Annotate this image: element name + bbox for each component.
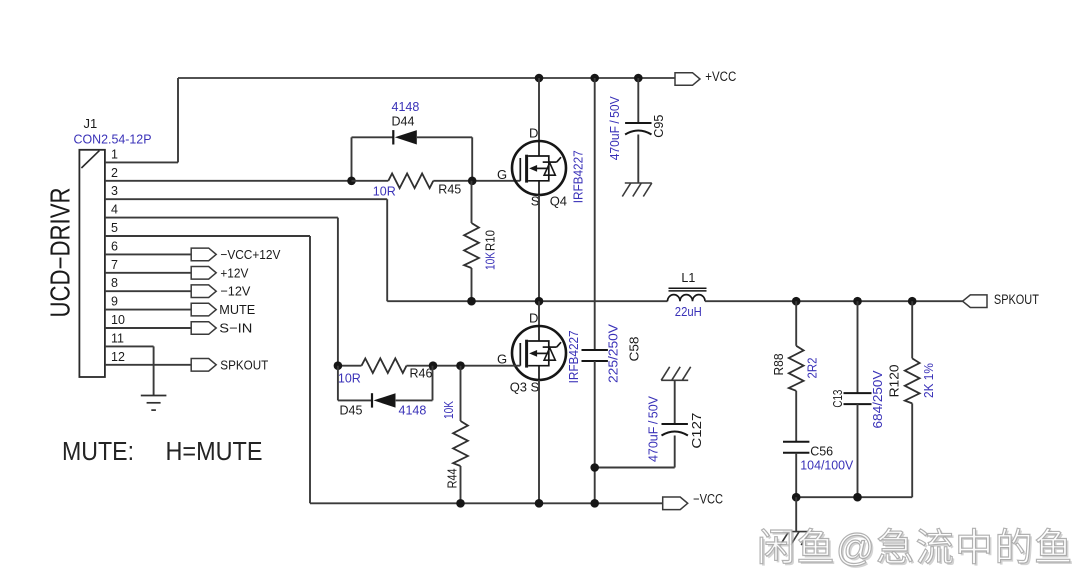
- junction pin2/D44/R45: [347, 177, 356, 186]
- svg-text:C56: C56: [810, 445, 833, 459]
- svg-text:G: G: [497, 167, 507, 182]
- junction R10 / switch rail: [467, 297, 476, 306]
- junction R120 / rail: [908, 297, 917, 306]
- wire R45 to Q4 gate: [433, 180, 520, 182]
- wire pin4: [105, 217, 338, 219]
- junction R45/R10/D44: [468, 177, 477, 186]
- ground (earth) C95: [622, 183, 652, 197]
- svg-text:IRFB4227: IRFB4227: [571, 150, 586, 203]
- svg-text:SPKOUT: SPKOUT: [220, 357, 268, 372]
- flag -VCC: [663, 497, 688, 510]
- connector J1 CON2.54-12P: [79, 150, 105, 377]
- wire pin4 vertical: [337, 218, 339, 366]
- svg-text:10K: 10K: [483, 251, 497, 270]
- svg-text:J1: J1: [84, 116, 98, 131]
- svg-text:4148: 4148: [399, 404, 427, 418]
- transistor Q3 (IRFB4227): [512, 326, 566, 380]
- ground (earth) output filter: [780, 532, 810, 546]
- wire R10 bottom: [471, 268, 473, 301]
- junction C58 / -VCC rail: [590, 499, 599, 508]
- junction C127 / C58 column: [590, 463, 599, 472]
- svg-text:R120: R120: [888, 364, 902, 397]
- svg-text:−VCC: −VCC: [693, 492, 723, 507]
- svg-text:3: 3: [111, 184, 118, 198]
- wire D45 right leg: [432, 366, 434, 401]
- junction R46/D45: [429, 361, 438, 370]
- svg-text:+12V: +12V: [220, 265, 248, 280]
- wire pin6 to flag: [105, 253, 191, 255]
- svg-text:Q4: Q4: [550, 194, 567, 209]
- svg-text:−VCC+12V: −VCC+12V: [220, 247, 280, 262]
- wire R44 bottom: [460, 466, 462, 503]
- svg-text:SPKOUT: SPKOUT: [994, 292, 1039, 307]
- flag S-IN (pin 10): [191, 322, 216, 335]
- wire pin5: [105, 235, 310, 237]
- capacitor C58 (225/250V): [582, 350, 608, 361]
- svg-text:IRFB4227: IRFB4227: [566, 330, 581, 383]
- svg-text:10: 10: [111, 313, 125, 327]
- junction C13 / rail: [853, 297, 862, 306]
- junction R44 / -VCC rail: [456, 499, 465, 508]
- wire D44 right leg: [471, 137, 473, 181]
- junction Q4 drain / +VCC rail: [535, 74, 544, 83]
- wire switch node rail: [387, 300, 667, 302]
- junction pin4/R46/D45: [334, 361, 343, 370]
- svg-text:4: 4: [111, 203, 118, 217]
- wire C127 bottom: [674, 436, 676, 468]
- flag SPKOUT: [963, 295, 987, 308]
- svg-text:11: 11: [111, 331, 124, 345]
- svg-text:4148: 4148: [392, 100, 420, 114]
- junction gate/R44: [456, 361, 465, 370]
- wire C58 bottom to -VCC rail: [594, 361, 596, 503]
- transistor Q4 (IRFB4227): [512, 141, 566, 195]
- svg-text:6: 6: [111, 239, 118, 253]
- svg-text:H=MUTE: H=MUTE: [166, 438, 263, 466]
- wire to D44 cathode: [352, 136, 394, 138]
- svg-text:C58: C58: [627, 336, 641, 361]
- svg-text:C13: C13: [831, 390, 845, 408]
- junction Q3 source / -VCC rail: [535, 499, 544, 508]
- capacitor C56 (104/100V): [783, 442, 809, 453]
- svg-text:470uF / 50V: 470uF / 50V: [646, 395, 660, 462]
- svg-text:225/250V: 225/250V: [607, 323, 621, 383]
- wire R120 bottom: [911, 403, 913, 497]
- junction C56 / bottom rail: [792, 493, 801, 502]
- wire C127 top: [674, 380, 676, 424]
- flag MUTE (pin 9): [191, 303, 216, 316]
- wire pin1 to vertical: [105, 161, 178, 163]
- resistor R10 (10K): [464, 223, 479, 268]
- wire right network bottom rail: [796, 496, 912, 498]
- wire C56 bottom: [795, 453, 797, 497]
- wire R88 to C56: [795, 391, 797, 442]
- wire R120 top: [911, 301, 913, 358]
- svg-text:5: 5: [111, 221, 118, 235]
- wire to R45: [352, 180, 389, 182]
- wire R88 top: [795, 301, 797, 346]
- svg-text:闲鱼@急流中的鱼: 闲鱼@急流中的鱼: [757, 528, 1074, 570]
- wire pin11: [105, 345, 154, 347]
- wire pin9 to flag: [105, 309, 191, 311]
- resistor R44 (10K): [453, 421, 468, 466]
- wire to R46: [338, 365, 362, 367]
- wire C58 top (from +VCC rail): [594, 78, 596, 350]
- wire R44 top: [460, 366, 462, 421]
- wire D44 anode: [417, 136, 472, 138]
- wire C127 to -VCC column: [595, 467, 675, 469]
- svg-text:D45: D45: [340, 404, 363, 418]
- flag SPKOUT (pin 12): [191, 359, 216, 372]
- svg-text:2K 1%: 2K 1%: [922, 363, 936, 398]
- ground (pin 11): [141, 396, 167, 411]
- svg-text:L1: L1: [681, 271, 695, 285]
- svg-text:2: 2: [111, 166, 118, 180]
- wire Q3 drain: [538, 301, 540, 326]
- svg-text:S−IN: S−IN: [219, 321, 252, 336]
- svg-text:8: 8: [111, 276, 118, 290]
- svg-text:22uH: 22uH: [675, 304, 702, 319]
- svg-text:9: 9: [111, 295, 118, 309]
- svg-text:+VCC: +VCC: [705, 69, 736, 84]
- wire R46 to Q3 gate: [407, 365, 521, 367]
- ground (earth) C127: [661, 367, 691, 381]
- svg-text:G: G: [497, 352, 507, 367]
- wire pin10 to flag: [105, 327, 191, 329]
- svg-text:MUTE: MUTE: [219, 302, 255, 317]
- wire C95 top: [637, 78, 639, 123]
- wire pin3 vertical: [386, 199, 388, 301]
- wire pin11 vertical to ground: [153, 346, 155, 395]
- svg-text:MUTE:: MUTE:: [62, 438, 134, 466]
- wire Q4 source to switch node: [538, 195, 540, 301]
- capacitor C95 (470uF/50V): [625, 123, 651, 135]
- svg-text:1: 1: [111, 147, 118, 161]
- svg-text:D: D: [529, 311, 538, 326]
- wire C13 top: [857, 301, 859, 393]
- wire to D45 cathode: [338, 399, 372, 401]
- junction R88 / rail: [792, 297, 801, 306]
- svg-text:R46: R46: [410, 367, 433, 381]
- resistor R120 (2K 1%): [905, 358, 920, 403]
- wire pin3: [105, 198, 387, 200]
- svg-text:CON2.54-12P: CON2.54-12P: [74, 132, 152, 147]
- resistor R46 (10R): [362, 358, 407, 373]
- wire D45 anode: [396, 399, 433, 401]
- wire pin2 gate net: [105, 180, 352, 182]
- svg-text:C95: C95: [652, 115, 666, 138]
- wire pin12 to flag: [105, 364, 191, 366]
- junction C95 / +VCC rail: [634, 74, 643, 83]
- svg-text:C127: C127: [690, 413, 704, 449]
- junction C13 / bottom rail: [853, 493, 862, 502]
- wire Q3 source: [538, 380, 540, 503]
- wire D44 left leg: [351, 137, 353, 181]
- svg-text:R10: R10: [483, 230, 497, 251]
- wire -VCC rail: [310, 502, 663, 504]
- resistor R88 (2R2): [789, 346, 804, 391]
- flag -12V (pin 8): [191, 285, 216, 298]
- svg-text:R88: R88: [772, 353, 786, 375]
- svg-text:104/100V: 104/100V: [800, 459, 854, 473]
- svg-text:R45: R45: [438, 183, 461, 197]
- wire Q4 drain: [538, 78, 540, 141]
- svg-text:10K: 10K: [442, 400, 456, 419]
- capacitor C127 (470uF/50V): [662, 424, 688, 436]
- wire pin7 to flag: [105, 272, 191, 274]
- svg-text:10R: 10R: [373, 185, 396, 199]
- wire pin1 vertical: [177, 78, 179, 162]
- svg-text:D44: D44: [392, 115, 415, 129]
- flag +VCC: [675, 73, 700, 86]
- resistor R45 (10R): [388, 174, 433, 189]
- diode D45 (4148): [372, 393, 396, 407]
- capacitor C13 (684/250V): [844, 393, 872, 404]
- junction Q4 source / Q3 drain: [535, 297, 544, 306]
- wire D45 left leg: [337, 366, 339, 401]
- junction C58 / +VCC rail: [590, 74, 599, 83]
- svg-text:−12V: −12V: [220, 284, 250, 299]
- flag -VCC+12V (pin 6): [191, 248, 216, 261]
- svg-text:470uF / 50V: 470uF / 50V: [608, 96, 622, 161]
- svg-text:7: 7: [111, 258, 118, 272]
- svg-text:10R: 10R: [338, 372, 361, 386]
- svg-text:R44: R44: [445, 468, 459, 488]
- inductor L1 (22uH): [668, 288, 707, 301]
- wire +VCC top rail: [178, 77, 675, 79]
- svg-text:Q3: Q3: [510, 380, 527, 395]
- flag +12V (pin 7): [191, 267, 216, 280]
- svg-text:D: D: [529, 126, 538, 141]
- wire C13 bottom: [857, 404, 859, 497]
- wire SPKOUT rail: [705, 300, 963, 302]
- wire pin8 to flag: [105, 290, 191, 292]
- svg-text:UCD−DRIVR: UCD−DRIVR: [45, 188, 76, 318]
- diode D44 (4148): [393, 130, 417, 144]
- svg-text:684/250V: 684/250V: [871, 370, 885, 429]
- svg-text:2R2: 2R2: [805, 357, 819, 378]
- wire C95 bottom: [637, 135, 639, 184]
- wire pin5 vertical: [309, 236, 311, 503]
- wire to ground stub: [795, 497, 797, 531]
- svg-text:12: 12: [111, 350, 125, 364]
- wire R10 top: [471, 181, 473, 223]
